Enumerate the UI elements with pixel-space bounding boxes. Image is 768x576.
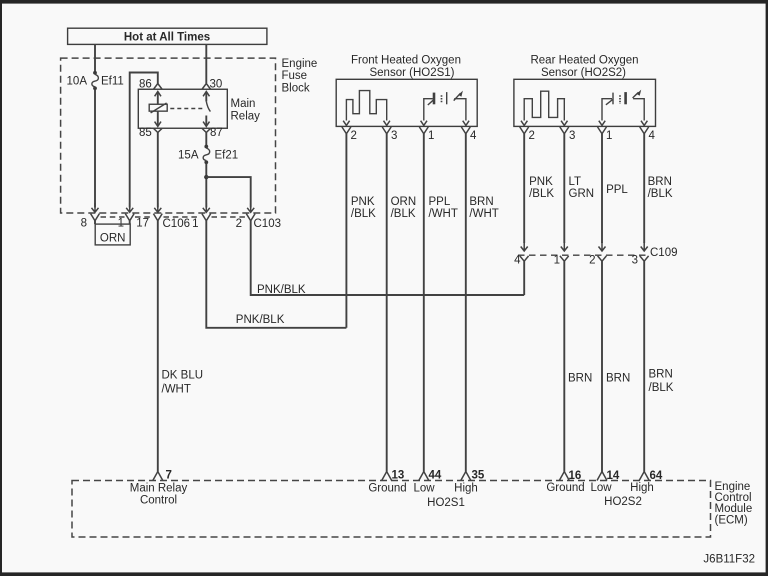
svg-text:/WHT: /WHT [469, 208, 498, 220]
svg-text:Control: Control [140, 495, 177, 507]
svg-text:ORN: ORN [391, 196, 417, 208]
svg-text:4: 4 [514, 255, 521, 267]
svg-text:4: 4 [470, 130, 477, 142]
svg-text:7: 7 [166, 470, 172, 482]
svg-text:Low: Low [413, 483, 435, 495]
svg-text:BRN: BRN [649, 369, 673, 381]
svg-text:BRN: BRN [469, 196, 493, 208]
svg-text:Front Heated Oxygen: Front Heated Oxygen [351, 55, 461, 67]
svg-text:/BLK: /BLK [649, 382, 674, 394]
svg-text:Fuse: Fuse [282, 70, 308, 82]
svg-text:10A: 10A [67, 76, 88, 88]
svg-text:Ef21: Ef21 [215, 150, 239, 162]
svg-text:LT: LT [569, 176, 582, 188]
svg-text:GRN: GRN [569, 188, 595, 200]
svg-text:1: 1 [554, 255, 560, 267]
svg-text:Sensor (HO2S2): Sensor (HO2S2) [541, 67, 626, 79]
svg-text:15A: 15A [178, 150, 199, 162]
svg-text:PNK: PNK [351, 196, 375, 208]
svg-text:4: 4 [649, 130, 656, 142]
svg-text:BRN: BRN [568, 373, 592, 385]
svg-text:87: 87 [210, 127, 223, 139]
svg-text:/BLK: /BLK [648, 188, 673, 200]
svg-text:Main Relay: Main Relay [130, 483, 188, 495]
svg-text:2: 2 [589, 255, 595, 267]
svg-text:/BLK: /BLK [351, 208, 376, 220]
svg-text:64: 64 [650, 470, 663, 482]
svg-text:13: 13 [392, 470, 405, 482]
svg-text:14: 14 [607, 470, 620, 482]
svg-text:/WHT: /WHT [429, 208, 458, 220]
svg-text:PNK/BLK: PNK/BLK [257, 284, 306, 296]
svg-text:17: 17 [136, 218, 149, 230]
svg-text:Main: Main [231, 98, 256, 110]
svg-text:8: 8 [81, 218, 87, 230]
svg-text:Low: Low [590, 482, 612, 494]
svg-text:C103: C103 [254, 218, 282, 230]
svg-text:PNK: PNK [529, 176, 553, 188]
svg-text:2: 2 [351, 130, 357, 142]
svg-text:PNK/BLK: PNK/BLK [236, 314, 285, 326]
svg-text:High: High [630, 482, 654, 494]
svg-text:Engine: Engine [282, 58, 318, 70]
svg-text:1: 1 [192, 218, 198, 230]
svg-text:(ECM): (ECM) [715, 515, 748, 527]
svg-text:2: 2 [236, 218, 242, 230]
svg-text:DK BLU: DK BLU [162, 370, 204, 382]
svg-text:Module: Module [715, 503, 753, 515]
svg-text:3: 3 [632, 255, 638, 267]
svg-text:J6B11F32: J6B11F32 [703, 554, 755, 566]
svg-text:Sensor (HO2S1): Sensor (HO2S1) [369, 67, 454, 79]
svg-text:1: 1 [428, 130, 434, 142]
svg-text:Hot at All Times: Hot at All Times [124, 32, 210, 44]
svg-text:Ground: Ground [546, 482, 584, 494]
svg-text:HO2S2: HO2S2 [604, 496, 642, 508]
svg-text:/BLK: /BLK [391, 208, 416, 220]
svg-text:85: 85 [139, 127, 152, 139]
svg-text:86: 86 [139, 79, 152, 91]
svg-text:2: 2 [529, 130, 535, 142]
svg-text:3: 3 [391, 130, 397, 142]
svg-text:PPL: PPL [606, 184, 628, 196]
svg-text:35: 35 [472, 470, 485, 482]
svg-text:3: 3 [569, 130, 575, 142]
svg-text:BRN: BRN [606, 373, 630, 385]
svg-text:C109: C109 [650, 247, 678, 259]
svg-text:Ef11: Ef11 [101, 76, 124, 88]
svg-text:16: 16 [569, 470, 582, 482]
svg-text:Block: Block [282, 83, 310, 95]
svg-text:/BLK: /BLK [529, 188, 554, 200]
svg-text:High: High [454, 483, 478, 495]
svg-text:Relay: Relay [231, 111, 261, 123]
svg-text:C106: C106 [163, 218, 191, 230]
svg-text:44: 44 [429, 470, 442, 482]
svg-text:HO2S1: HO2S1 [427, 497, 465, 509]
svg-text:ORN: ORN [100, 233, 126, 245]
svg-text:30: 30 [210, 79, 223, 91]
svg-text:Rear Heated Oxygen: Rear Heated Oxygen [530, 55, 638, 67]
svg-text:BRN: BRN [648, 176, 672, 188]
svg-text:/WHT: /WHT [162, 384, 191, 396]
svg-text:1: 1 [606, 130, 612, 142]
svg-text:PPL: PPL [429, 196, 451, 208]
svg-text:Ground: Ground [368, 483, 406, 495]
